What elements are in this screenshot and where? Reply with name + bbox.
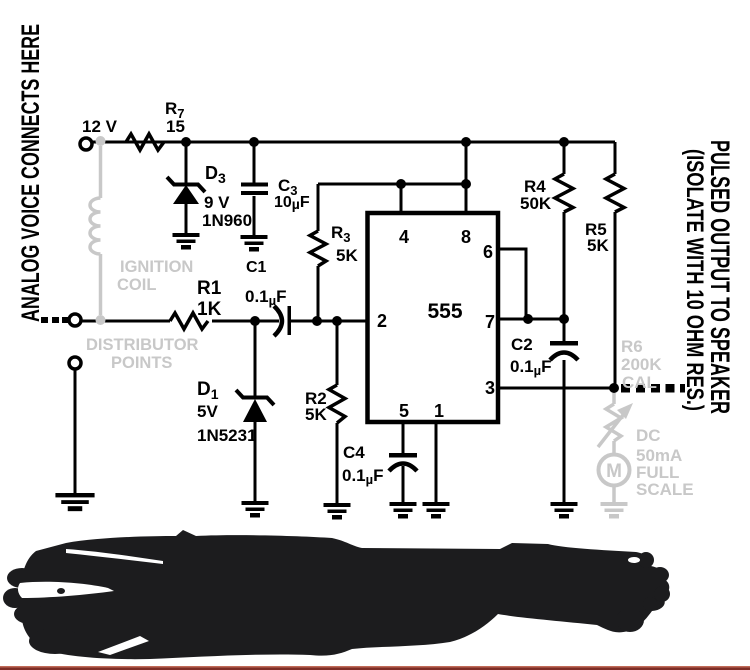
svg-text:D3: D3 (205, 163, 226, 186)
svg-text:D1: D1 (197, 379, 219, 402)
svg-text:C1: C1 (246, 259, 267, 276)
svg-text:C2: C2 (511, 335, 533, 354)
svg-text:6: 6 (483, 242, 493, 262)
svg-text:M: M (606, 461, 622, 482)
svg-text:5K: 5K (305, 405, 327, 424)
svg-text:ANALOG VOICE CONNECTS HERE: ANALOG VOICE CONNECTS HERE (17, 24, 45, 322)
svg-text:50K: 50K (520, 194, 552, 213)
svg-text:5: 5 (399, 401, 409, 421)
svg-text:8: 8 (461, 227, 471, 247)
svg-text:555: 555 (427, 300, 462, 323)
svg-text:10µF: 10µF (274, 194, 310, 212)
svg-text:R3: R3 (331, 223, 351, 245)
svg-text:1N960: 1N960 (202, 211, 252, 230)
svg-text:5V: 5V (197, 402, 218, 421)
svg-text:IGNITION: IGNITION (120, 258, 193, 276)
svg-text:1: 1 (434, 401, 444, 421)
svg-text:7: 7 (485, 312, 495, 332)
svg-text:0.1µF: 0.1µF (510, 357, 552, 378)
svg-text:200K: 200K (621, 355, 662, 374)
svg-text:0.1µF: 0.1µF (342, 466, 384, 487)
svg-text:POINTS: POINTS (111, 354, 172, 372)
svg-text:1N5231: 1N5231 (197, 426, 257, 445)
svg-text:SCALE: SCALE (636, 480, 694, 499)
svg-text:COIL: COIL (117, 276, 156, 294)
svg-text:DISTRIBUTOR: DISTRIBUTOR (86, 336, 199, 354)
svg-text:4: 4 (399, 227, 409, 247)
svg-text:R6: R6 (621, 337, 643, 356)
svg-text:CAL: CAL (622, 373, 657, 392)
svg-text:9 V: 9 V (204, 193, 230, 212)
svg-text:PULSED OUTPUT TO SPEAKER: PULSED OUTPUT TO SPEAKER (705, 140, 735, 414)
svg-text:R1: R1 (197, 278, 222, 299)
svg-text:(ISOLATE WITH 10 OHM RES.): (ISOLATE WITH 10 OHM RES.) (681, 149, 708, 411)
svg-text:C4: C4 (343, 443, 365, 462)
svg-text:0.1µF: 0.1µF (245, 287, 287, 308)
svg-text:1K: 1K (197, 299, 222, 320)
svg-text:5K: 5K (587, 236, 609, 255)
svg-text:3: 3 (485, 378, 495, 398)
svg-text:DC: DC (636, 426, 661, 445)
svg-text:12 V: 12 V (82, 117, 118, 136)
svg-text:2: 2 (377, 311, 387, 331)
svg-text:15: 15 (166, 117, 185, 136)
svg-text:5K: 5K (336, 246, 358, 265)
